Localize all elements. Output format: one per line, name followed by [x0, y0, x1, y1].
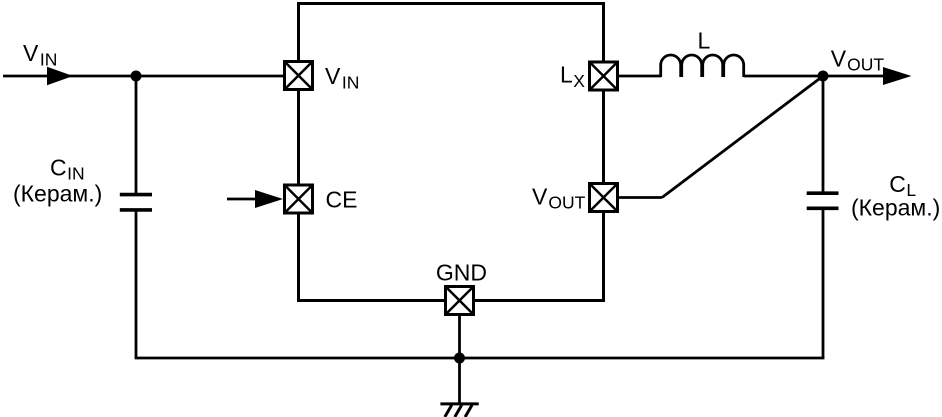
wire CE stub [227, 198, 257, 201]
label VOUT output [831, 46, 885, 75]
label pin CE [326, 187, 358, 213]
label pin VIN [325, 63, 359, 93]
output arrow [883, 67, 912, 85]
svg-text:LX: LX [560, 62, 585, 91]
wire VOUT pin stub [617, 196, 662, 199]
wire CIN bottom [135, 212, 138, 359]
wire GND down [458, 314, 461, 403]
wire bottom rail [135, 357, 825, 360]
node input junction [131, 71, 142, 82]
IC U1 outline [299, 4, 604, 301]
svg-text:L: L [698, 28, 711, 54]
wire CL top [822, 76, 825, 192]
svg-text:VIN: VIN [23, 40, 57, 70]
label CL ceramic [851, 195, 940, 221]
svg-text:CE: CE [326, 187, 358, 213]
label CL [889, 171, 916, 200]
svg-text:GND: GND [436, 260, 487, 286]
label L [698, 28, 711, 54]
label CIN [50, 155, 85, 184]
label VIN source [23, 40, 57, 70]
ground symbol [440, 404, 478, 417]
svg-text:VIN: VIN [325, 63, 359, 93]
pin CE [285, 185, 313, 213]
pin GND [446, 287, 474, 315]
wire CIN top [135, 76, 138, 193]
node ground junction [454, 353, 465, 364]
capacitor CIN [120, 195, 152, 210]
input arrow [47, 67, 73, 86]
label pin LX [560, 62, 585, 91]
pin VIN [285, 62, 313, 90]
svg-text:(Керам.): (Керам.) [13, 181, 102, 207]
svg-text:(Керам.): (Керам.) [851, 195, 940, 221]
wire input VIN [3, 75, 284, 78]
node output junction [818, 71, 829, 82]
inductor L [661, 55, 744, 77]
pin VOUT [590, 184, 618, 212]
svg-text:CIN: CIN [50, 155, 85, 184]
label pin VOUT [532, 184, 586, 213]
capacitor CL [807, 193, 839, 208]
svg-text:VOUT: VOUT [532, 184, 586, 213]
wire inductor to output node [744, 75, 884, 78]
wire LX to inductor [617, 75, 661, 78]
wire CL bottom [822, 210, 825, 358]
svg-text:VOUT: VOUT [831, 46, 885, 75]
label CIN ceramic [13, 181, 102, 207]
CE arrow [255, 190, 283, 208]
label pin GND [436, 260, 487, 286]
pin LX [590, 62, 618, 90]
wire diagonal feedback [662, 76, 823, 198]
